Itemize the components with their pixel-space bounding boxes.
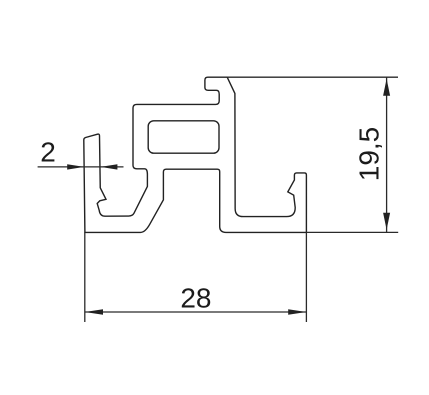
aluminium profile outer outline (84, 77, 307, 232)
arrow pointing right at tab left face (67, 164, 84, 169)
arrow pointing left at tab right face (100, 164, 117, 169)
dimension: bottom extension line (19,5) (306, 231, 398, 233)
svg-text:19,5: 19,5 (353, 127, 384, 182)
arrow right (288, 309, 306, 315)
arrow left (85, 309, 103, 315)
arrow down (383, 213, 390, 230)
dimension: left extension line (28) (84, 232, 86, 322)
dimension: top extension line (19,5) (227, 76, 398, 78)
svg-text:2: 2 (40, 137, 56, 168)
dimension line 19,5 (386, 77, 388, 232)
svg-text:28: 28 (180, 282, 211, 313)
arrow up (383, 79, 390, 96)
rounded rectangle hole (148, 121, 219, 153)
dimension: right extension line (28) (305, 232, 307, 322)
dimension line 2 (38, 166, 124, 168)
dimension line 28 (85, 311, 307, 313)
